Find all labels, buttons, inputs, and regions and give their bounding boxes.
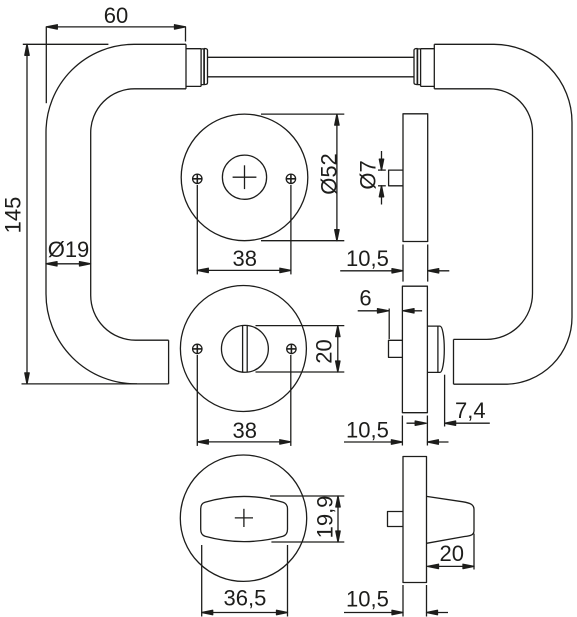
dimension 7,4 label — [455, 398, 486, 423]
right lever collar — [421, 49, 435, 87]
dimension 20 — [256, 326, 345, 372]
dimension 19,9 label — [313, 496, 338, 539]
dimension 7,4 — [407, 375, 490, 427]
side view 1 plate — [403, 114, 428, 242]
left lever collar — [186, 49, 201, 87]
rosette 3 outer circle — [180, 455, 306, 581]
svg-text:38: 38 — [233, 418, 257, 443]
dimension 60 label — [104, 3, 128, 28]
rosette 2 turn hub — [221, 325, 268, 372]
rosette 1 left screw — [193, 174, 202, 183]
side view 2 spindle stub — [389, 340, 403, 357]
dimension D7 — [378, 151, 386, 205]
left lever handle end face — [168, 340, 170, 384]
left lever rings — [201, 49, 207, 85]
dimension 36,5 label — [223, 585, 266, 610]
dimension 6 — [358, 309, 422, 340]
dimension D52 — [261, 114, 344, 241]
dimension D7 label — [356, 160, 381, 189]
dimension 10,5 lower label — [346, 587, 389, 612]
right lever handle end face — [453, 339, 455, 384]
rosette 2 right screw — [287, 344, 296, 353]
rosette 1 center cross — [233, 165, 257, 189]
right lever rings — [414, 49, 421, 85]
side view 2 release pin — [427, 326, 444, 372]
svg-text:6: 6 — [359, 286, 371, 311]
svg-text:Ø7: Ø7 — [356, 160, 381, 189]
side view 3 thumbturn knob side — [427, 496, 475, 543]
dimension 38 lower — [197, 355, 290, 446]
side view 1 spindle stub — [389, 170, 403, 186]
dimension 60 — [46, 25, 185, 104]
dimension 19,9 — [270, 496, 344, 542]
dimension 38 upper — [197, 185, 291, 274]
left lever handle inner contour — [91, 89, 186, 340]
rosette 1 center hole — [222, 155, 266, 199]
dimension D19 label — [48, 237, 90, 262]
svg-text:36,5: 36,5 — [223, 585, 266, 610]
rosette 2 left screw — [193, 344, 202, 353]
side view 3 spindle stub — [388, 512, 404, 527]
spindle bar — [208, 57, 414, 77]
dimension 10,5 middle — [344, 416, 449, 446]
rosette 3 thumbturn knob front — [201, 496, 288, 541]
svg-text:10,5: 10,5 — [346, 587, 389, 612]
svg-text:10,5: 10,5 — [346, 246, 389, 271]
dimension D19 — [46, 262, 91, 266]
svg-text:19,9: 19,9 — [313, 496, 338, 539]
right lever handle outer contour — [434, 44, 572, 384]
svg-text:10,5: 10,5 — [346, 418, 389, 443]
dimension 10,5 upper — [340, 245, 449, 282]
dimension 20 knob — [428, 534, 475, 570]
right lever neck face — [433, 44, 435, 89]
dimension 145 label — [1, 197, 26, 234]
dimension 36,5 — [202, 545, 288, 617]
dimension 38 upper label — [233, 246, 257, 271]
dimension D52 label — [317, 153, 342, 195]
dimension 20 knob label — [439, 541, 463, 566]
right lever handle inner contour — [434, 89, 532, 340]
dimension 6 label — [359, 286, 371, 311]
rosette 1 right screw — [286, 174, 295, 183]
dimension 10,5 middle label — [346, 418, 389, 443]
dimension 10,5 lower — [344, 585, 448, 617]
left lever handle outer contour — [46, 44, 186, 384]
svg-text:20: 20 — [312, 339, 337, 363]
rosette 1 outer circle — [181, 114, 308, 241]
svg-text:Ø52: Ø52 — [317, 153, 342, 195]
svg-text:38: 38 — [233, 246, 257, 271]
rosette 2 outer circle — [180, 286, 306, 412]
side view 3 plate — [403, 457, 427, 583]
left lever neck face — [185, 44, 187, 89]
side view 2 plate — [402, 286, 427, 413]
svg-text:20: 20 — [439, 541, 463, 566]
dimension 10,5 upper label — [346, 246, 389, 271]
dimension 38 lower label — [233, 418, 257, 443]
svg-text:Ø19: Ø19 — [48, 237, 90, 262]
svg-text:60: 60 — [104, 3, 128, 28]
svg-text:7,4: 7,4 — [455, 398, 486, 423]
dimension 145 — [22, 44, 138, 384]
rosette 3 center cross — [235, 509, 253, 527]
rosette 2 slot — [243, 326, 248, 372]
svg-text:145: 145 — [1, 197, 26, 234]
dimension 20 label — [312, 339, 337, 363]
